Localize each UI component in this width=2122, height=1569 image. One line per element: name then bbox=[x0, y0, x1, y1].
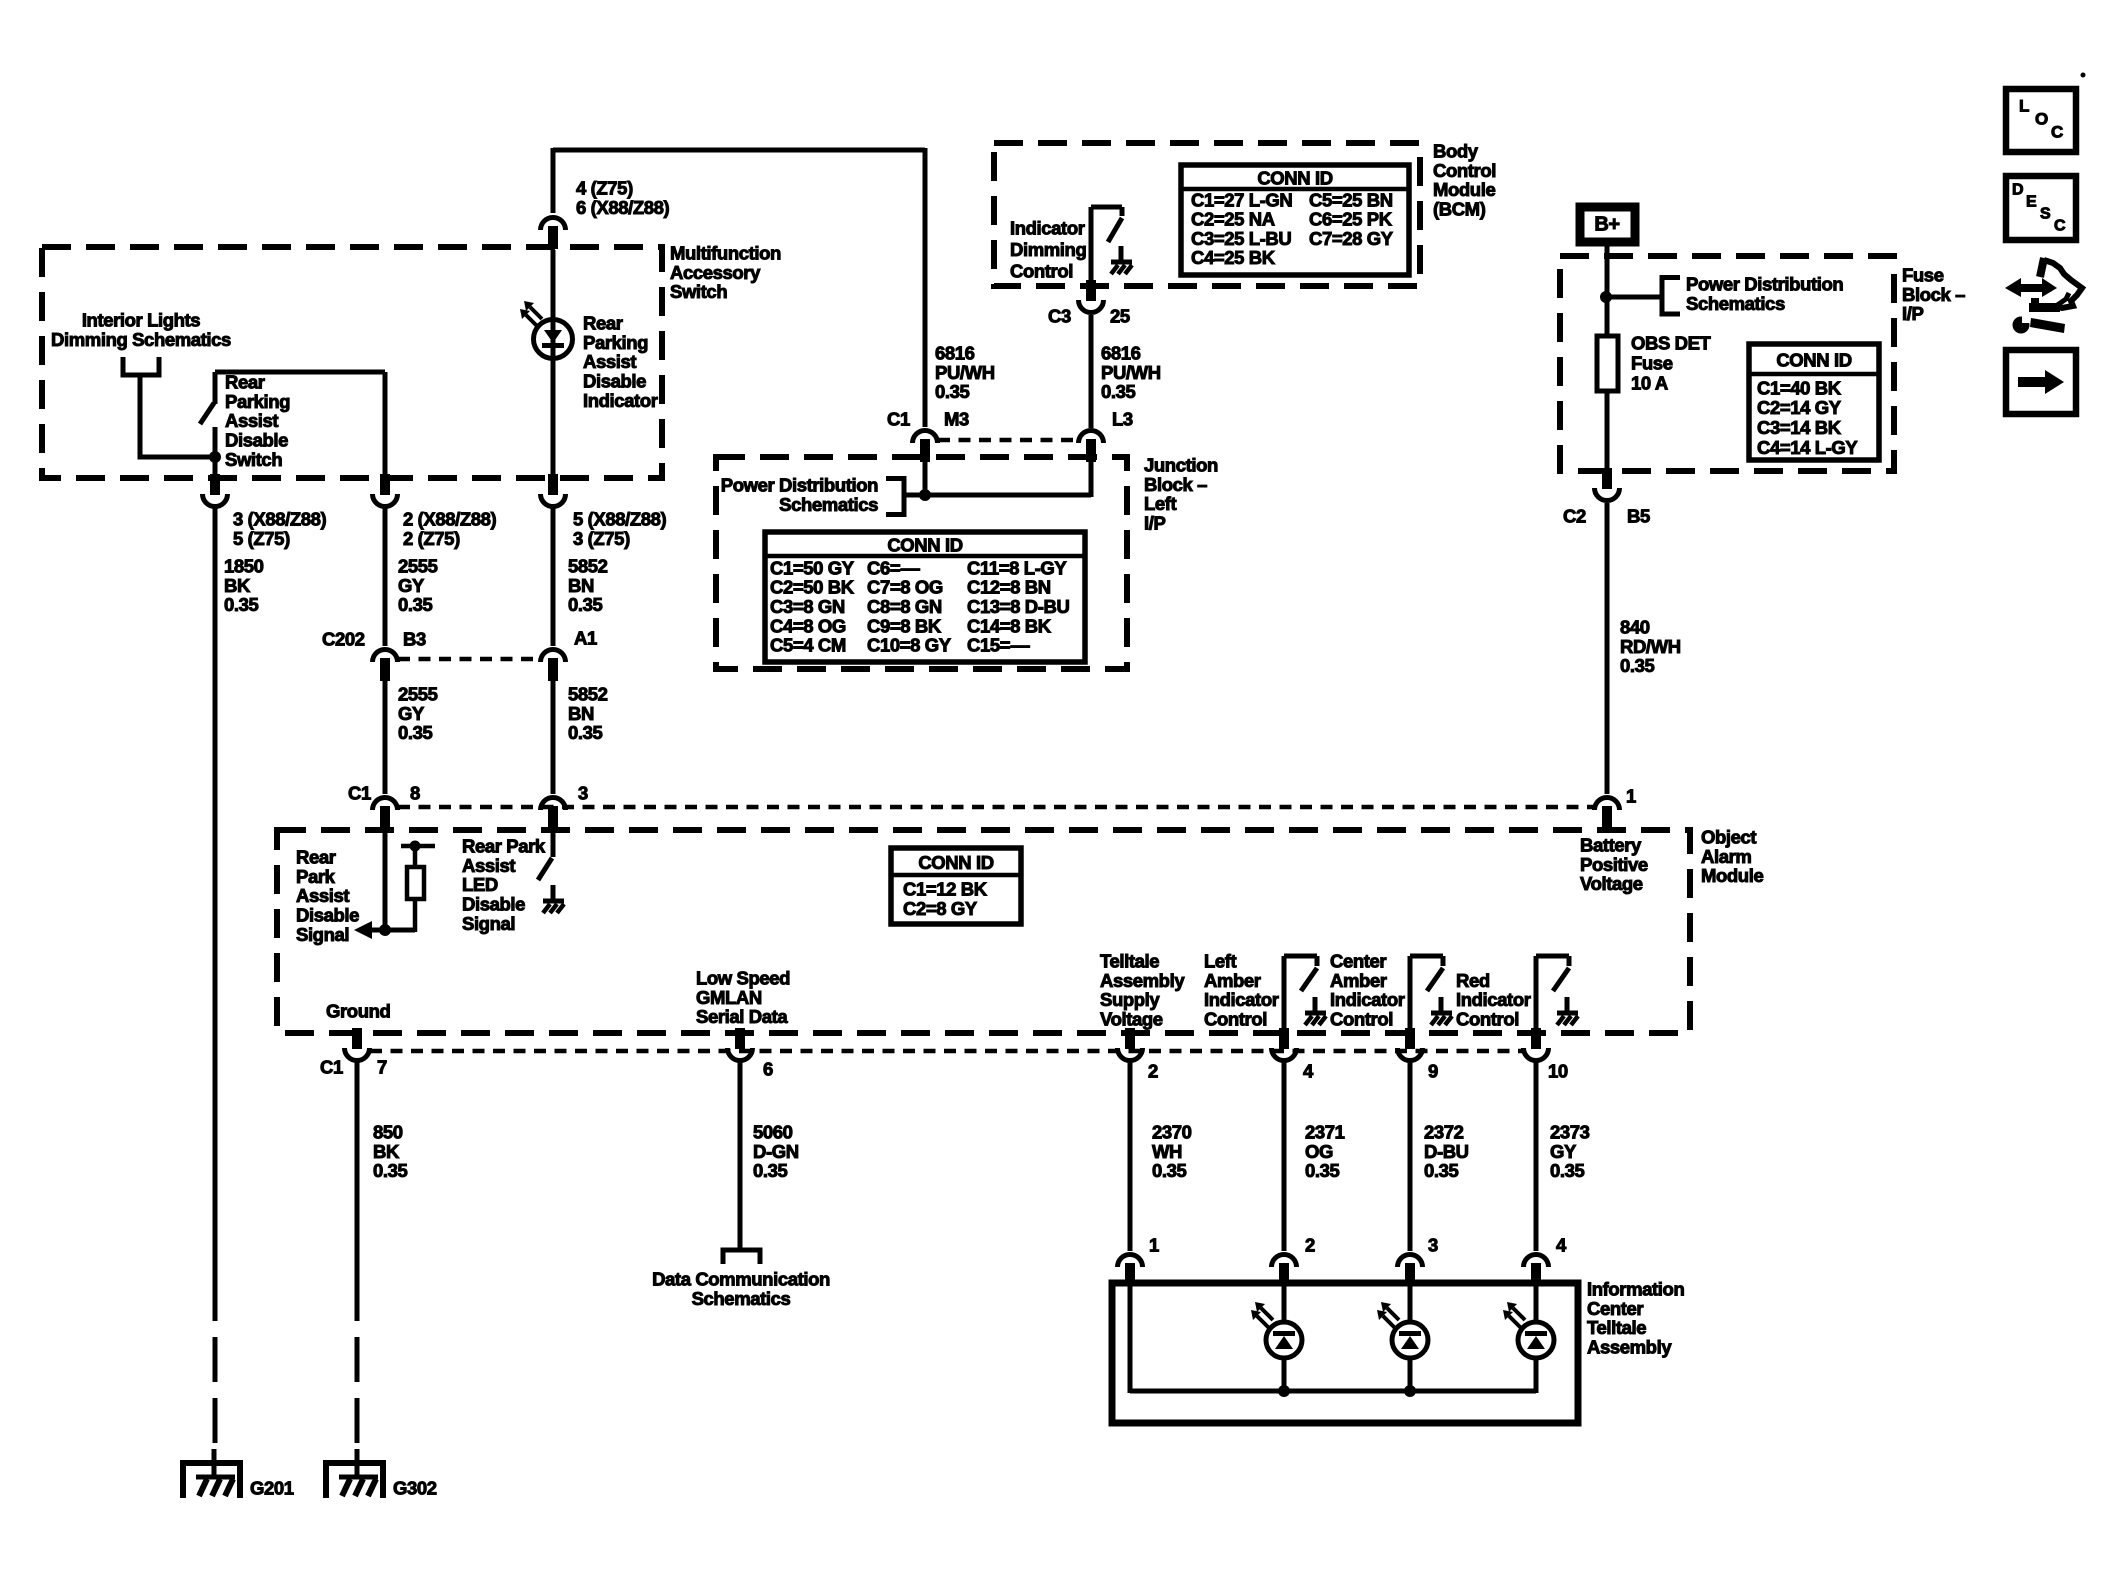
svg-text:Control: Control bbox=[1010, 260, 1073, 281]
svg-text:C2=50 BK: C2=50 BK bbox=[770, 577, 855, 598]
svg-text:Telltale: Telltale bbox=[1587, 1317, 1646, 1338]
wire 5852 BN lower bbox=[551, 680, 556, 794]
connector telltale 2 bbox=[1272, 1255, 1297, 1287]
label Power Distribution Schematics (junction) bbox=[721, 474, 878, 514]
svg-text:G201: G201 bbox=[250, 1477, 294, 1498]
label Rear Park Assist LED Disable Signal bbox=[462, 835, 546, 934]
svg-text:Junction: Junction bbox=[1144, 454, 1218, 475]
svg-text:Data Communication: Data Communication bbox=[652, 1268, 830, 1289]
wire 5852 BN upper bbox=[551, 508, 556, 646]
svg-text:C2: C2 bbox=[1563, 505, 1586, 526]
table Module CONN ID bbox=[891, 848, 1021, 924]
svg-text:Assembly: Assembly bbox=[1100, 970, 1185, 991]
arrow disable signal bbox=[354, 921, 372, 939]
svg-text:0.35: 0.35 bbox=[568, 594, 603, 615]
svg-text:WH: WH bbox=[1152, 1141, 1182, 1162]
wire junction block internal bbox=[904, 462, 1091, 501]
connector 4 left amber bbox=[1272, 1028, 1297, 1061]
inline connector line C1 row bbox=[398, 805, 1594, 810]
svg-text:D-GN: D-GN bbox=[753, 1141, 799, 1162]
svg-text:Rear: Rear bbox=[583, 312, 623, 333]
label pins 4 (Z75) / 6 (X88/Z88) bbox=[576, 177, 670, 217]
svg-text:C6=25 PK: C6=25 PK bbox=[1309, 209, 1393, 230]
connector 3 bbox=[541, 797, 566, 829]
svg-text:BK: BK bbox=[224, 575, 251, 596]
svg-text:Dimming: Dimming bbox=[1010, 239, 1086, 260]
svg-text:C2=8 GY: C2=8 GY bbox=[903, 898, 978, 919]
box Fuse Block I/P bbox=[1560, 256, 1894, 471]
svg-text:BN: BN bbox=[568, 703, 594, 724]
svg-text:C2=14 GY: C2=14 GY bbox=[1757, 397, 1842, 418]
bracket Data Communication bbox=[721, 1250, 763, 1264]
svg-text:PU/WH: PU/WH bbox=[935, 362, 995, 383]
svg-text:Switch: Switch bbox=[225, 449, 282, 470]
label 9 bbox=[1428, 1060, 1438, 1081]
switch Center Amber output bbox=[1410, 956, 1452, 1035]
svg-text:O: O bbox=[2035, 109, 2048, 128]
svg-text:9: 9 bbox=[1428, 1060, 1438, 1081]
LED telltale red bbox=[1503, 1283, 1554, 1393]
svg-text:3 (Z75): 3 (Z75) bbox=[573, 528, 630, 549]
svg-text:Disable: Disable bbox=[225, 430, 288, 451]
connector 6 GMLAN bbox=[728, 1028, 753, 1061]
label 7 bbox=[377, 1056, 387, 1077]
svg-text:Battery: Battery bbox=[1580, 834, 1642, 855]
icon LOC bbox=[2006, 89, 2076, 152]
svg-text:Supply: Supply bbox=[1100, 989, 1160, 1010]
svg-text:D: D bbox=[2012, 182, 2023, 199]
label Power Distribution Schematics (fuse block) bbox=[1686, 273, 1843, 313]
label C1 bbox=[348, 782, 371, 803]
label wire 2371 OG 0.35 bbox=[1305, 1121, 1345, 1181]
svg-text:CONN ID: CONN ID bbox=[918, 852, 993, 873]
label wire 2555 GY 0.35 lower bbox=[398, 683, 438, 743]
label Telltale Assembly Supply Voltage bbox=[1100, 950, 1185, 1029]
icon DESC bbox=[2006, 176, 2076, 240]
svg-text:Parking: Parking bbox=[225, 391, 290, 412]
svg-text:4: 4 bbox=[1303, 1060, 1314, 1081]
label Interior Lights Dimming Schematics bbox=[51, 309, 231, 349]
connector C1 7 ground bbox=[345, 1028, 370, 1061]
svg-text:B+: B+ bbox=[1594, 214, 1619, 236]
svg-text:2 (X88/Z88): 2 (X88/Z88) bbox=[403, 508, 497, 529]
svg-text:OBS DET: OBS DET bbox=[1631, 332, 1712, 353]
label pins 5 (X88/Z88) 3 (Z75) bbox=[573, 508, 667, 548]
svg-text:C1: C1 bbox=[348, 782, 371, 803]
label Body Control Module (BCM) bbox=[1433, 140, 1496, 219]
box Information Center Telltale Assembly bbox=[1112, 1283, 1578, 1423]
label Battery Positive Voltage bbox=[1580, 834, 1648, 894]
svg-text:M3: M3 bbox=[944, 408, 969, 429]
switch Rear Parking Assist Disable Switch bbox=[200, 372, 215, 480]
resistor pull-up bbox=[401, 841, 435, 933]
table Junction CONN ID bbox=[765, 532, 1085, 662]
svg-text:Switch: Switch bbox=[670, 281, 727, 302]
svg-text:C11=8 L-GY: C11=8 L-GY bbox=[967, 557, 1067, 578]
label wire 6816 PU/WH 0.35 left bbox=[935, 342, 995, 402]
wire top feed from switch to BCM column bbox=[553, 148, 925, 427]
svg-text:850: 850 bbox=[373, 1121, 403, 1142]
svg-text:C15=––: C15=–– bbox=[967, 635, 1030, 656]
svg-text:Low Speed: Low Speed bbox=[696, 967, 790, 988]
connector 1 battery bbox=[1595, 797, 1620, 829]
svg-text:C7=28 GY: C7=28 GY bbox=[1309, 228, 1394, 249]
svg-text:6 (X88/Z88): 6 (X88/Z88) bbox=[576, 197, 670, 218]
svg-text:Amber: Amber bbox=[1330, 970, 1387, 991]
label wire 5852 BN 0.35 lower bbox=[568, 683, 608, 743]
svg-text:L: L bbox=[2019, 96, 2029, 115]
svg-text:Assist: Assist bbox=[462, 855, 515, 876]
svg-text:0.35: 0.35 bbox=[398, 722, 433, 743]
svg-text:Block –: Block – bbox=[1902, 284, 1965, 305]
svg-text:4: 4 bbox=[1556, 1234, 1567, 1255]
svg-text:1: 1 bbox=[1626, 785, 1636, 806]
svg-text:Information: Information bbox=[1587, 1278, 1684, 1299]
label wire 840 RD/WH 0.35 bbox=[1620, 616, 1681, 676]
box Multifunction Accessory Switch bbox=[42, 247, 662, 478]
connector pin 3/5 left switch leg bbox=[202, 474, 227, 507]
svg-text:Parking: Parking bbox=[583, 332, 648, 353]
label 3 bbox=[578, 782, 588, 803]
svg-text:Dimming Schematics: Dimming Schematics bbox=[51, 329, 231, 350]
label 1 bbox=[1149, 1234, 1159, 1255]
svg-text:2370: 2370 bbox=[1152, 1121, 1192, 1142]
connector 9 center amber bbox=[1398, 1028, 1423, 1061]
box Body Control Module bbox=[994, 143, 1420, 286]
svg-text:B5: B5 bbox=[1627, 505, 1650, 526]
label C2 bbox=[1563, 505, 1586, 526]
svg-text:L3: L3 bbox=[1112, 408, 1133, 429]
svg-text:6: 6 bbox=[763, 1058, 773, 1079]
wire 2372 D-BU bbox=[1408, 1062, 1413, 1251]
LED telltale center amber bbox=[1377, 1283, 1428, 1393]
ground G302 bbox=[324, 1449, 386, 1498]
label Low Speed GMLAN Serial Data bbox=[696, 967, 790, 1027]
svg-text:CONN ID: CONN ID bbox=[887, 535, 962, 556]
label C3 bbox=[1048, 305, 1071, 326]
box Junction Block Left I/P bbox=[716, 457, 1127, 669]
svg-text:2555: 2555 bbox=[398, 555, 438, 576]
switch Indicator Dimming Control bbox=[1091, 207, 1122, 288]
label pins 3 (X88/Z88) 5 (Z75) bbox=[233, 508, 327, 548]
label OBS DET Fuse 10 A bbox=[1631, 332, 1712, 393]
label 3 bbox=[1428, 1234, 1438, 1255]
svg-text:Block –: Block – bbox=[1144, 474, 1207, 495]
svg-text:CONN ID: CONN ID bbox=[1776, 350, 1851, 371]
svg-text:Control: Control bbox=[1433, 160, 1496, 181]
svg-text:C12=8 BN: C12=8 BN bbox=[967, 577, 1051, 598]
connector C1 8 bbox=[373, 797, 398, 829]
svg-text:0.35: 0.35 bbox=[1620, 655, 1655, 676]
svg-text:0.35: 0.35 bbox=[568, 722, 603, 743]
svg-text:10: 10 bbox=[1548, 1060, 1568, 1081]
wire 6816 PU/WH right bbox=[1089, 315, 1094, 428]
bracket Interior Lights reference bbox=[121, 357, 162, 378]
fuse OBS DET 10A bbox=[1597, 336, 1618, 473]
label 1 bbox=[1626, 785, 1636, 806]
label wire 2370 WH 0.35 bbox=[1152, 1121, 1192, 1181]
svg-text:Indicator: Indicator bbox=[1456, 989, 1531, 1010]
wire B+ to fuse bbox=[1600, 246, 1662, 336]
label Junction Block - Left I/P bbox=[1144, 454, 1218, 533]
wire 2555 GY lower bbox=[383, 680, 388, 794]
svg-text:Voltage: Voltage bbox=[1580, 873, 1643, 894]
connector telltale 3 bbox=[1398, 1255, 1423, 1287]
label 6 bbox=[763, 1058, 773, 1079]
svg-text:I/P: I/P bbox=[1902, 303, 1923, 324]
svg-text:2371: 2371 bbox=[1305, 1121, 1345, 1142]
svg-text:Rear: Rear bbox=[296, 846, 336, 867]
svg-text:C3: C3 bbox=[1048, 305, 1071, 326]
svg-text:25: 25 bbox=[1110, 305, 1130, 326]
svg-text:C1=12 BK: C1=12 BK bbox=[903, 878, 988, 899]
svg-text:A1: A1 bbox=[574, 627, 597, 648]
svg-text:C6=––: C6=–– bbox=[867, 557, 920, 578]
svg-text:Disable: Disable bbox=[462, 894, 525, 915]
svg-text:Object: Object bbox=[1701, 826, 1756, 847]
svg-text:0.35: 0.35 bbox=[1424, 1160, 1459, 1181]
label M3 bbox=[944, 408, 969, 429]
connector L3 bbox=[1079, 430, 1104, 462]
svg-text:0.35: 0.35 bbox=[373, 1160, 408, 1181]
svg-text:5852: 5852 bbox=[568, 555, 608, 576]
connector 2 supply bbox=[1118, 1028, 1143, 1061]
label Rear Parking Assist Disable Switch bbox=[225, 371, 290, 470]
wire 5060 D-GN bbox=[738, 1062, 743, 1250]
svg-text:Amber: Amber bbox=[1204, 970, 1261, 991]
label Object Alarm Module bbox=[1701, 826, 1763, 886]
wire 2371 OG bbox=[1282, 1062, 1287, 1251]
svg-text:0.35: 0.35 bbox=[753, 1160, 788, 1181]
svg-text:C1: C1 bbox=[887, 408, 910, 429]
svg-text:GY: GY bbox=[398, 703, 425, 724]
LED telltale left amber bbox=[1251, 1283, 1302, 1393]
switch Red output bbox=[1536, 956, 1578, 1035]
svg-text:OG: OG bbox=[1305, 1141, 1333, 1162]
svg-text:0.35: 0.35 bbox=[935, 381, 970, 402]
svg-text:BN: BN bbox=[568, 575, 594, 596]
svg-text:D-BU: D-BU bbox=[1424, 1141, 1469, 1162]
svg-text:Park: Park bbox=[296, 866, 336, 887]
svg-text:S: S bbox=[2040, 206, 2051, 223]
svg-text:C3=8 GN: C3=8 GN bbox=[770, 596, 845, 617]
label wire 2372 D-BU 0.35 bbox=[1424, 1121, 1469, 1181]
connector telltale 1 bbox=[1118, 1255, 1143, 1287]
label B5 bbox=[1627, 505, 1650, 526]
svg-text:Red: Red bbox=[1456, 970, 1490, 991]
table Fuse CONN ID bbox=[1749, 344, 1879, 460]
label B3 bbox=[403, 628, 426, 649]
connector top of multifunction switch bbox=[541, 218, 566, 250]
label wire 2555 GY 0.35 upper bbox=[398, 555, 438, 615]
wire switch top to indicator branch bbox=[215, 372, 385, 480]
svg-text:C1=50 GY: C1=50 GY bbox=[770, 557, 855, 578]
svg-text:0.35: 0.35 bbox=[1101, 381, 1136, 402]
connector C202 B3 bbox=[373, 650, 398, 682]
svg-text:C8=8 GN: C8=8 GN bbox=[867, 596, 942, 617]
svg-text:Alarm: Alarm bbox=[1701, 846, 1751, 867]
bracket Power Distribution (junction) bbox=[886, 476, 904, 517]
wire 1850 BK long left drop bbox=[213, 508, 218, 1450]
svg-text:C202: C202 bbox=[322, 628, 365, 649]
label 2 bbox=[1305, 1234, 1315, 1255]
wire 850 BK to G302 bbox=[355, 1062, 360, 1450]
label wire 2373 GY 0.35 bbox=[1550, 1121, 1590, 1181]
label Fuse Block - I/P bbox=[1902, 264, 1965, 324]
svg-text:RD/WH: RD/WH bbox=[1620, 636, 1681, 657]
connector 10 red bbox=[1524, 1028, 1549, 1061]
connector C3 25 bbox=[1079, 280, 1104, 313]
svg-text:6816: 6816 bbox=[935, 342, 975, 363]
label Left Amber Indicator Control bbox=[1204, 950, 1279, 1029]
connector telltale 4 bbox=[1524, 1255, 1549, 1287]
svg-text:Assist: Assist bbox=[296, 885, 349, 906]
label 2 bbox=[1148, 1060, 1158, 1081]
svg-text:Fuse: Fuse bbox=[1631, 352, 1673, 373]
inline connector line bottom row bbox=[370, 1049, 1523, 1054]
inline connector line M3-L3 bbox=[938, 438, 1078, 443]
label C202 bbox=[322, 628, 365, 649]
svg-text:C1=40 BK: C1=40 BK bbox=[1757, 377, 1842, 398]
label wire 850 BK 0.35 bbox=[373, 1121, 408, 1181]
ground LED disable bbox=[543, 885, 564, 913]
svg-text:Module: Module bbox=[1701, 865, 1763, 886]
svg-text:2372: 2372 bbox=[1424, 1121, 1464, 1142]
svg-text:C9=8 BK: C9=8 BK bbox=[867, 615, 942, 636]
svg-text:3 (X88/Z88): 3 (X88/Z88) bbox=[233, 508, 327, 529]
connector pin 2/2 middle leg bbox=[373, 474, 398, 507]
label C1 bbox=[887, 408, 910, 429]
svg-text:Indicator: Indicator bbox=[1204, 989, 1279, 1010]
svg-text:LED: LED bbox=[462, 874, 498, 895]
svg-text:8: 8 bbox=[410, 782, 420, 803]
svg-text:C14=8 BK: C14=8 BK bbox=[967, 615, 1052, 636]
svg-text:C10=8 GY: C10=8 GY bbox=[867, 635, 952, 656]
wire 2370 WH bbox=[1128, 1062, 1133, 1251]
svg-text:BK: BK bbox=[373, 1141, 400, 1162]
svg-text:2: 2 bbox=[1305, 1234, 1315, 1255]
table BCM CONN ID bbox=[1181, 165, 1409, 275]
LED Rear Parking Assist Disable Indicator bbox=[520, 250, 573, 480]
svg-text:5 (X88/Z88): 5 (X88/Z88) bbox=[573, 508, 667, 529]
svg-text:C4=25 BK: C4=25 BK bbox=[1191, 247, 1276, 268]
label 25 bbox=[1110, 305, 1130, 326]
svg-text:CONN ID: CONN ID bbox=[1257, 168, 1332, 189]
label wire 5060 D-GN 0.35 bbox=[753, 1121, 799, 1181]
icon arrow-right bbox=[2006, 350, 2076, 414]
ground G201 bbox=[181, 1449, 243, 1498]
icon hotlink arrows wrench bbox=[2005, 258, 2082, 334]
wire bracket to switch bbox=[140, 375, 221, 463]
svg-text:Voltage: Voltage bbox=[1100, 1009, 1163, 1030]
svg-text:Body: Body bbox=[1433, 140, 1479, 161]
label G302 bbox=[393, 1477, 437, 1498]
box Object Alarm Module bbox=[277, 830, 1690, 1033]
svg-text:6816: 6816 bbox=[1101, 342, 1141, 363]
wire telltale supply internal bbox=[1128, 1283, 1133, 1393]
svg-text:10 A: 10 A bbox=[1631, 372, 1668, 393]
svg-text:Disable: Disable bbox=[583, 371, 646, 392]
label Information Center Telltale Assembly bbox=[1587, 1278, 1684, 1357]
svg-text:C1: C1 bbox=[320, 1056, 343, 1077]
wire 2373 GY bbox=[1534, 1062, 1539, 1251]
label Data Communication Schematics bbox=[652, 1268, 830, 1308]
label wire 5852 BN 0.35 upper bbox=[568, 555, 608, 615]
label Multifunction Accessory Switch bbox=[670, 242, 781, 302]
svg-text:Signal: Signal bbox=[462, 913, 515, 934]
svg-text:Signal: Signal bbox=[296, 924, 349, 945]
svg-text:Power Distribution: Power Distribution bbox=[1686, 273, 1843, 294]
svg-text:Control: Control bbox=[1330, 1009, 1393, 1030]
svg-text:Control: Control bbox=[1204, 1009, 1267, 1030]
svg-text:G302: G302 bbox=[393, 1477, 437, 1498]
svg-text:0.35: 0.35 bbox=[1152, 1160, 1187, 1181]
svg-text:0.35: 0.35 bbox=[1550, 1160, 1585, 1181]
svg-text:3: 3 bbox=[1428, 1234, 1438, 1255]
svg-text:GY: GY bbox=[1550, 1141, 1577, 1162]
svg-text:E: E bbox=[2026, 194, 2037, 211]
svg-text:4 (Z75): 4 (Z75) bbox=[576, 177, 633, 198]
switch LED disable signal bbox=[538, 830, 553, 880]
svg-text:Fuse: Fuse bbox=[1902, 264, 1944, 285]
svg-text:GMLAN: GMLAN bbox=[696, 987, 762, 1008]
B+ terminal bbox=[1580, 207, 1635, 242]
switch Left Amber output bbox=[1284, 956, 1326, 1035]
svg-text:2373: 2373 bbox=[1550, 1121, 1590, 1142]
svg-text:C2=25 NA: C2=25 NA bbox=[1191, 209, 1275, 230]
label 4 bbox=[1303, 1060, 1314, 1081]
svg-text:C13=8 D-BU: C13=8 D-BU bbox=[967, 596, 1069, 617]
svg-text:2 (Z75): 2 (Z75) bbox=[403, 528, 460, 549]
svg-text:PU/WH: PU/WH bbox=[1101, 362, 1161, 383]
svg-text:C4=8 OG: C4=8 OG bbox=[770, 615, 846, 636]
svg-text:7: 7 bbox=[377, 1056, 387, 1077]
svg-text:C: C bbox=[2051, 122, 2063, 141]
connector C1 M3 bbox=[913, 430, 938, 462]
svg-text:Indicator: Indicator bbox=[1010, 217, 1085, 238]
label Red Indicator Control bbox=[1456, 970, 1531, 1030]
mark top-right dot bbox=[2081, 73, 2086, 78]
label Ground bbox=[326, 1000, 390, 1021]
svg-text:C3=14 BK: C3=14 BK bbox=[1757, 417, 1842, 438]
svg-text:Assembly: Assembly bbox=[1587, 1337, 1672, 1358]
label C1 bbox=[320, 1056, 343, 1077]
svg-text:Assist: Assist bbox=[583, 351, 636, 372]
svg-text:Power Distribution: Power Distribution bbox=[721, 474, 878, 495]
svg-text:(BCM): (BCM) bbox=[1433, 199, 1486, 220]
svg-text:Module: Module bbox=[1433, 179, 1495, 200]
wire disable signal node bbox=[367, 830, 415, 936]
label G201 bbox=[250, 1477, 294, 1498]
label Rear Park Assist Disable Signal bbox=[296, 846, 359, 945]
svg-text:1850: 1850 bbox=[224, 555, 264, 576]
connector C202 A1 bbox=[541, 650, 566, 682]
connector pin 5/3 indicator leg bbox=[541, 474, 566, 507]
svg-text:840: 840 bbox=[1620, 616, 1650, 637]
svg-text:Schematics: Schematics bbox=[692, 1288, 791, 1309]
label Rear Parking Assist Disable Indicator bbox=[583, 312, 658, 411]
svg-text:Rear: Rear bbox=[225, 371, 265, 392]
label Center Amber Indicator Control bbox=[1330, 950, 1405, 1029]
wire 6816 PU/WH left bbox=[923, 425, 928, 430]
bracket Power Distribution (fuse block) bbox=[1662, 275, 1680, 317]
label A1 bbox=[574, 627, 597, 648]
svg-text:Indicator: Indicator bbox=[1330, 989, 1405, 1010]
wire 2555 GY upper bbox=[383, 508, 388, 646]
svg-text:3: 3 bbox=[578, 782, 588, 803]
svg-text:1: 1 bbox=[1149, 1234, 1159, 1255]
svg-text:Ground: Ground bbox=[326, 1000, 390, 1021]
